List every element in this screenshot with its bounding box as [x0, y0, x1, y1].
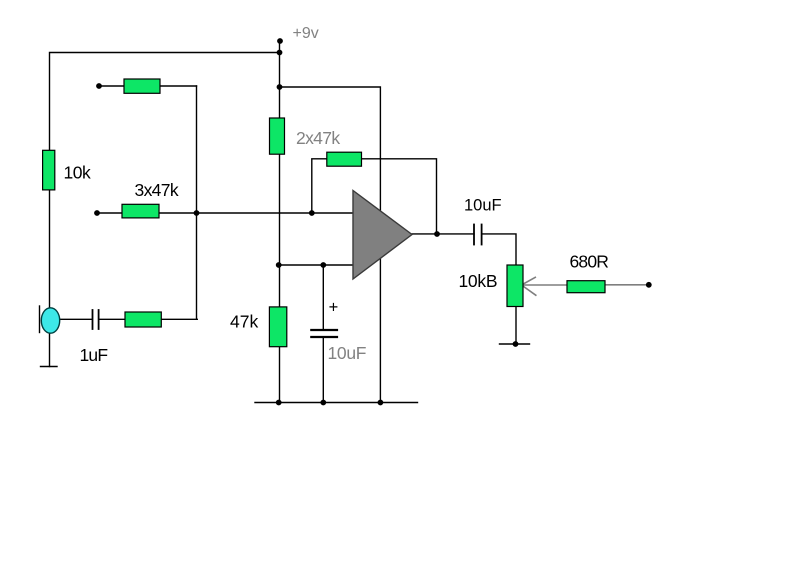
svg-text:1uF: 1uF [80, 345, 108, 365]
svg-text:10uF: 10uF [328, 343, 367, 363]
svg-text:2x47k: 2x47k [296, 128, 340, 148]
svg-text:10uF: 10uF [464, 197, 502, 215]
svg-text:+9v: +9v [293, 25, 319, 42]
svg-text:3x47k: 3x47k [135, 180, 179, 200]
svg-text:47k: 47k [230, 312, 258, 332]
svg-text:680R: 680R [570, 252, 609, 272]
svg-text:+: + [329, 298, 339, 316]
svg-text:10k: 10k [64, 163, 91, 183]
svg-text:10kB: 10kB [459, 271, 498, 291]
